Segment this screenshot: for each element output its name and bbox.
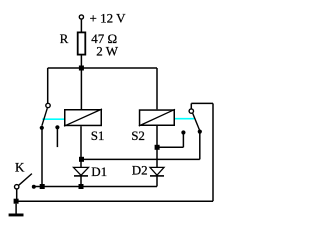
wire rail junction down to S1 coil top — [80, 68, 82, 109]
node junction ground / rail2 — [14, 199, 19, 204]
wire bottom rail 1 — [34, 186, 157, 188]
wire top rail — [48, 67, 157, 69]
wire rail left drop to S1 pivot — [47, 68, 49, 103]
switch S1 right contact — [55, 125, 59, 129]
node junction S1 contact wire / rail1 — [40, 184, 45, 189]
switch S2 left contact — [181, 130, 185, 134]
node junction S1 coil bottom / crosswire — [79, 157, 84, 162]
wire terminal to resistor — [80, 20, 82, 32]
wire S2 junction to left contact — [157, 146, 183, 148]
resistor R — [60, 31, 119, 58]
relay coil S2 — [131, 109, 175, 143]
switch S2 lever — [193, 113, 200, 130]
cyan link S2 — [175, 118, 194, 120]
node junction rail/resistor — [79, 66, 84, 71]
node junction D1 bottom rail — [79, 184, 84, 189]
wire S1 left contact down to bottom rail — [41, 130, 43, 187]
wire cross link S1 bottom to S2 right contact — [82, 158, 200, 160]
svg-text:S1: S1 — [91, 128, 105, 143]
switch S1 pivot — [46, 103, 50, 107]
cyan link S1 — [42, 118, 64, 120]
relay coil S1 — [64, 109, 104, 143]
wire S1 right contact stub — [56, 129, 58, 147]
diode D2 — [132, 163, 164, 178]
switch K — [15, 159, 36, 189]
wire resistor to top rail — [80, 56, 82, 69]
svg-text:2 W: 2 W — [96, 44, 119, 59]
terminal +12V — [79, 11, 126, 26]
svg-text:S2: S2 — [131, 128, 145, 143]
ground — [9, 204, 24, 217]
wire S2 coil bottom down through D2 — [156, 126, 158, 186]
switch S2 right contact — [198, 130, 202, 134]
wire bottom rail 2 — [16, 200, 213, 202]
wire rail right drop to S2 coil top — [156, 68, 158, 109]
switch S1 left contact — [40, 126, 44, 130]
svg-text:D1: D1 — [91, 164, 107, 179]
svg-text:D2: D2 — [132, 163, 148, 178]
diode D1 — [74, 164, 108, 179]
switch S1 lever — [42, 108, 47, 126]
svg-text:K: K — [15, 159, 25, 174]
svg-text:+ 12 V: + 12 V — [90, 11, 127, 26]
wire K pivot down to ground junction — [16, 189, 18, 201]
wire right vertical — [212, 103, 214, 201]
wire S2 pivot up and over to right vertical — [190, 103, 192, 108]
wire S1 coil bottom down through D1 — [80, 126, 82, 186]
svg-text:R: R — [60, 31, 69, 46]
node junction S2 coil bottom — [155, 145, 160, 150]
switch S2 pivot — [189, 109, 193, 113]
